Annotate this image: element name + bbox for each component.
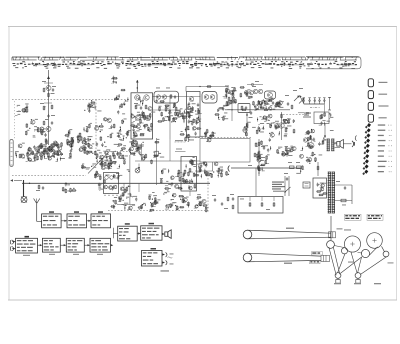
fuse parts: [288, 162, 301, 169]
wire x130 down: [117, 155, 135, 205]
belt2 left pulley: [243, 253, 252, 262]
cluster x130-144 y139-157: [130, 139, 144, 156]
block A2 mixer: [67, 211, 87, 227]
spec table right: [367, 214, 383, 220]
driver chain parts: [254, 142, 265, 174]
dashed vertical boundary: [95, 100, 97, 161]
belt1 idler: [329, 228, 343, 238]
wire to motor: [330, 216, 332, 240]
cluster x154-180 y100-125: [161, 102, 183, 122]
legend connector symbols: [368, 79, 388, 122]
transistor TS1 stage: [42, 81, 56, 92]
head circle X: [135, 168, 140, 173]
U1 interior fill: [131, 97, 152, 138]
wire vertical x48: [48, 70, 50, 145]
cluster x196-214 y166-176: [194, 163, 213, 178]
antenna: [34, 199, 40, 222]
driver chain wire: [258, 139, 260, 176]
block A1 tuner: [42, 211, 62, 227]
cluster right of AF box: [197, 161, 208, 178]
cluster left input: [15, 104, 29, 116]
AF module box small: [181, 157, 197, 192]
block B3: [66, 238, 84, 252]
idler pulley a: [341, 248, 347, 254]
belt1 left pulley: [243, 230, 252, 239]
vertical wires AF: [124, 138, 190, 196]
U1 lower parts: [130, 122, 152, 136]
capstan drive belt: [329, 247, 340, 276]
osc area extra parts: [285, 95, 293, 109]
transistor TS2: [46, 127, 51, 132]
arrow B4-B5: [111, 244, 114, 246]
motor symbol M1: [131, 140, 138, 147]
supply feed wire: [231, 167, 302, 169]
primary box: [313, 178, 327, 198]
U1 mid parts: [134, 103, 147, 110]
mains text block: [272, 182, 285, 192]
label under B1: [23, 255, 30, 256]
dashed bias line: [283, 114, 307, 116]
arrow B3-B4: [84, 244, 90, 246]
cluster x225-236 y88-104: [225, 86, 234, 122]
secondary wires: [335, 185, 353, 205]
cluster x131-160 y142-170: [130, 139, 165, 164]
U1 transistors row2: [135, 115, 150, 121]
node arrow top: [44, 76, 53, 83]
pair transistors x253-263: [252, 86, 263, 94]
AF stage parts 1: [110, 186, 146, 211]
U1 transistors row1: [135, 95, 150, 100]
motor pulley: [327, 241, 335, 249]
cluster left-mid extra: [16, 138, 61, 158]
flywheel capstan 2: [367, 233, 383, 249]
block D1 record amp: [142, 248, 163, 266]
mech dim label: [344, 229, 351, 230]
arrow A1-A2: [61, 220, 67, 222]
selector box small: [303, 182, 310, 188]
dashed vertical AF right: [207, 178, 209, 212]
module box U1: [131, 93, 153, 139]
belt2 idler: [321, 255, 330, 261]
output transformer T2: [327, 139, 340, 151]
osc can T1: [238, 104, 250, 113]
cluster x60-96 y118-140: [65, 123, 103, 147]
labels under row2 blocks: [49, 254, 103, 255]
parts x270-280 y99-110: [270, 99, 278, 106]
cluster above governor: [101, 154, 117, 170]
bus wire main y183: [22, 182, 210, 184]
wire box to transformer: [324, 124, 326, 139]
D1 output jacks: [162, 252, 174, 265]
DIN connector BU1: [10, 140, 13, 167]
U2 interior fill: [188, 101, 202, 126]
wire y151.5 right: [175, 149, 186, 152]
mic input symbols: [11, 240, 16, 251]
dashed module boundary top-left: [12, 99, 130, 101]
wire feed x137: [136, 80, 139, 92]
block B1 input: [16, 236, 38, 253]
AF module parts: [180, 157, 195, 190]
legend arrow/diamond chain: [362, 123, 392, 175]
wire antenna to A1: [37, 220, 42, 222]
driver cluster x266-295: [266, 138, 296, 160]
wire comb to box: [323, 104, 325, 112]
cluster left of governor: [94, 171, 103, 191]
wire out down: [317, 162, 319, 176]
idler pulley c: [383, 251, 389, 257]
cluster right x86-99: [84, 100, 101, 113]
AF out parts: [178, 194, 208, 212]
cluster mid-right b: [240, 87, 254, 99]
belt2 length label: [284, 263, 292, 264]
bus wire y161: [135, 160, 200, 162]
eq network row: [21, 145, 63, 162]
jumper wire y86.5: [186, 86, 228, 93]
motor hatch label 2: [310, 260, 321, 263]
comb contacts: [298, 95, 331, 113]
module box U2: [187, 92, 201, 138]
cluster mid-right c: [253, 100, 266, 111]
parts left of TS2: [40, 129, 47, 137]
cluster x212-228 y163-176: [213, 162, 229, 178]
head connector cluster: [25, 119, 45, 137]
arrow A2-A3: [87, 220, 92, 222]
cluster x179-190 y104-124: [181, 109, 191, 123]
motor hatch label 1: [312, 252, 323, 255]
dashed vertical left margin: [14, 101, 16, 140]
block diagram caption: [161, 270, 170, 271]
pressure roller 2: [355, 273, 361, 284]
cluster x155-181 more: [156, 99, 183, 122]
erase head parts: [319, 112, 334, 131]
cluster x100-130 y155-182: [101, 154, 125, 184]
cluster x216-228 y104-122: [215, 101, 231, 121]
head lead thick: [23, 180, 25, 197]
arrow B2-B3: [60, 244, 66, 246]
parts on bus y110: [242, 109, 269, 115]
motor govern cluster: [96, 142, 131, 172]
speaker LS1: [334, 140, 343, 149]
fig captions bottom: [334, 283, 381, 284]
rounded box U3a: [154, 88, 179, 104]
block B2: [42, 238, 60, 252]
eq row right fill: [39, 148, 65, 160]
U2 parts: [186, 97, 201, 136]
arrow B5-C1: [137, 232, 141, 234]
record head symbol: [21, 197, 27, 203]
voltage selector box: [238, 197, 283, 214]
link A3 to B4: [113, 228, 117, 239]
AF stage parts 2: [149, 188, 179, 212]
comb rail: [304, 103, 325, 105]
output transistors: [303, 138, 314, 149]
spec table left: [345, 214, 362, 220]
arrow down at x139: [138, 164, 140, 170]
output stage parts: [300, 129, 327, 164]
tape lacing: [338, 246, 387, 274]
left of U1 fill: [114, 89, 129, 114]
cluster mid-right a: [223, 87, 237, 106]
parts at x44-53 y121: [43, 119, 53, 125]
parts left of selector: [230, 194, 234, 209]
label 4.5 top right: [174, 140, 185, 142]
voltage switch: [284, 173, 291, 196]
speaker jack: [343, 141, 354, 147]
cluster mid-right d: [261, 114, 280, 137]
parts top-left light: [111, 76, 118, 84]
idler pulley b: [361, 249, 369, 257]
governor module box: [104, 173, 119, 196]
motor belt link: [334, 246, 344, 248]
text block x305 y113: [303, 113, 311, 118]
trimmer C2: [47, 114, 55, 118]
pressure roller 1: [335, 273, 341, 284]
bus wire y108: [153, 97, 291, 111]
cluster under bus: [29, 182, 77, 193]
U1 inner extra: [133, 99, 155, 122]
block B5 AF: [118, 223, 138, 241]
mid cluster x100-130 y117-140: [99, 118, 131, 141]
cluster left of AF box: [160, 169, 183, 195]
parts under U3: [180, 128, 216, 143]
rounded pair box U3: [202, 92, 217, 104]
block B4: [90, 238, 111, 252]
cap row y195-210: [212, 195, 229, 209]
wire x170 down: [169, 95, 171, 139]
block A3 IF: [91, 211, 111, 227]
pot R2: [40, 103, 53, 110]
cluster osc top: [264, 98, 281, 111]
connector C mark: [355, 136, 356, 141]
block C1 output: [141, 223, 162, 240]
dashed playback boundary: [12, 151, 130, 176]
dashed AF module bottom boundary: [108, 210, 208, 212]
speaker block sym: [162, 230, 171, 239]
jumper parts x252: [247, 81, 263, 86]
regulator contact: [155, 151, 161, 156]
head box: [314, 112, 329, 124]
bias trap: [69, 143, 101, 169]
switch arrows NE: [293, 88, 305, 104]
rounded box U4: [264, 91, 275, 99]
mid right fill: [258, 100, 284, 110]
rectifier parts: [336, 181, 346, 190]
bias chain: [275, 112, 287, 140]
arrow B1-B2: [38, 244, 43, 246]
driver cluster x255-266: [255, 140, 269, 171]
resistor chain R1: [48, 93, 55, 98]
mains connector: [228, 166, 230, 172]
cluster bias right extra: [283, 118, 295, 137]
dashed boundary mid: [195, 137, 252, 139]
belt1 runs: [248, 230, 332, 239]
belt1 length label: [286, 228, 294, 229]
mains transformer T3: [328, 172, 335, 213]
AF box inner extra: [184, 161, 197, 189]
power area extra: [248, 165, 304, 174]
eq row left fill: [15, 146, 39, 161]
wire into selector: [255, 168, 257, 196]
cluster x243-260 y115-135: [243, 116, 265, 136]
belt2 runs: [248, 253, 322, 262]
switch bank SK1 contact row: [12, 57, 361, 69]
flywheel capstan 1: [344, 236, 360, 252]
input arrow: [10, 179, 22, 181]
bias vertical switch: [246, 113, 253, 128]
empty module box: [195, 139, 250, 172]
dash-dot bias wire: [310, 106, 320, 108]
eq parts upper: [33, 137, 74, 149]
mech small label: [348, 262, 354, 263]
scan page border: [8, 27, 397, 301]
fig label right: [388, 262, 394, 263]
